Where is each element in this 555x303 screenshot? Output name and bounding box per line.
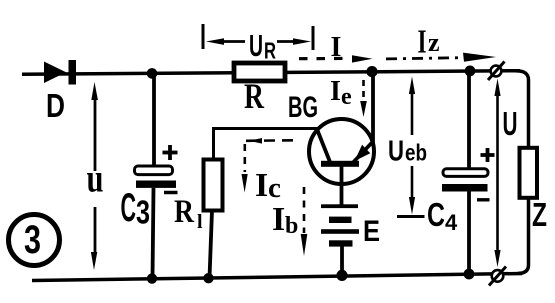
wire C3 bottom	[153, 188, 154, 279]
battery E	[321, 204, 359, 246]
svg-text:u: u	[87, 156, 104, 201]
measurement u	[91, 82, 98, 270]
wire bottom rail	[32, 274, 522, 281]
transistor emitter line	[353, 142, 373, 163]
svg-text:b: b	[285, 213, 298, 239]
resistor R	[234, 63, 285, 81]
figure number 3	[9, 215, 60, 266]
current arrow I	[299, 55, 373, 62]
label Ueb	[388, 136, 427, 168]
label Ic	[255, 167, 281, 204]
svg-text:R: R	[264, 38, 276, 64]
svg-text:BG: BG	[288, 91, 318, 124]
svg-text:3: 3	[24, 218, 41, 262]
wire right side	[516, 71, 529, 274]
node top C4	[465, 66, 476, 77]
label Ib	[272, 201, 298, 239]
node top emitter	[366, 66, 377, 77]
svg-text:z: z	[428, 28, 440, 57]
wire Rl bottom	[210, 211, 213, 279]
wire C4 top	[467, 71, 471, 170]
transistor collector line	[318, 131, 331, 163]
measurement Ueb	[397, 77, 425, 217]
label Iz	[418, 24, 440, 61]
svg-text:4: 4	[445, 210, 458, 235]
label C3	[121, 186, 151, 231]
svg-text:I: I	[330, 76, 341, 107]
wire C4 bottom	[467, 192, 471, 275]
capacitor C4	[442, 148, 495, 200]
svg-text:c: c	[268, 172, 281, 204]
diode D	[44, 60, 76, 85]
svg-text:D: D	[46, 87, 65, 124]
transistor base bar	[321, 161, 359, 167]
label UR	[249, 28, 276, 64]
svg-text:U: U	[249, 28, 263, 63]
svg-text:C: C	[121, 186, 137, 230]
svg-text:Z: Z	[532, 196, 547, 233]
wire top rail	[22, 71, 520, 75]
svg-text:e: e	[341, 84, 352, 110]
wire emitter	[371, 72, 375, 144]
transistor BG circle	[309, 119, 374, 184]
wire E bottom	[340, 246, 344, 275]
transistor emitter arrow	[355, 145, 371, 161]
svg-text:R: R	[174, 194, 195, 230]
current arrow Iz	[386, 53, 496, 62]
node top C3	[147, 68, 158, 79]
resistor Rl	[204, 160, 223, 211]
transistor base lead	[340, 166, 344, 205]
svg-text:U: U	[503, 105, 518, 142]
current arrow Ic	[242, 138, 295, 193]
svg-text:C: C	[427, 196, 445, 233]
label Rl	[174, 194, 203, 233]
svg-text:I: I	[255, 167, 268, 204]
current arrow Ie	[360, 80, 367, 117]
measurement UR	[203, 24, 313, 50]
svg-text:E: E	[363, 215, 380, 248]
node bottom Rl	[203, 273, 213, 283]
svg-text:l: l	[197, 211, 203, 233]
wire C3 top	[152, 73, 156, 166]
resistor Z	[520, 148, 538, 198]
capacitor C3	[135, 145, 178, 193]
terminal bottom	[489, 267, 506, 286]
label Ie	[330, 76, 352, 110]
label C4	[427, 196, 458, 235]
current arrow Ib	[301, 187, 308, 256]
svg-text:I: I	[272, 201, 285, 238]
node bottom C3	[147, 273, 157, 283]
node bottom E	[336, 270, 347, 281]
svg-text:I: I	[418, 24, 427, 61]
svg-text:3: 3	[136, 194, 150, 231]
terminal top	[488, 62, 505, 81]
svg-text:eb: eb	[405, 140, 427, 166]
svg-text:U: U	[388, 136, 404, 168]
node bottom C4	[464, 269, 475, 280]
svg-text:R: R	[244, 76, 265, 116]
wire Rl to BG collector	[214, 129, 318, 161]
measurement U	[494, 79, 500, 268]
